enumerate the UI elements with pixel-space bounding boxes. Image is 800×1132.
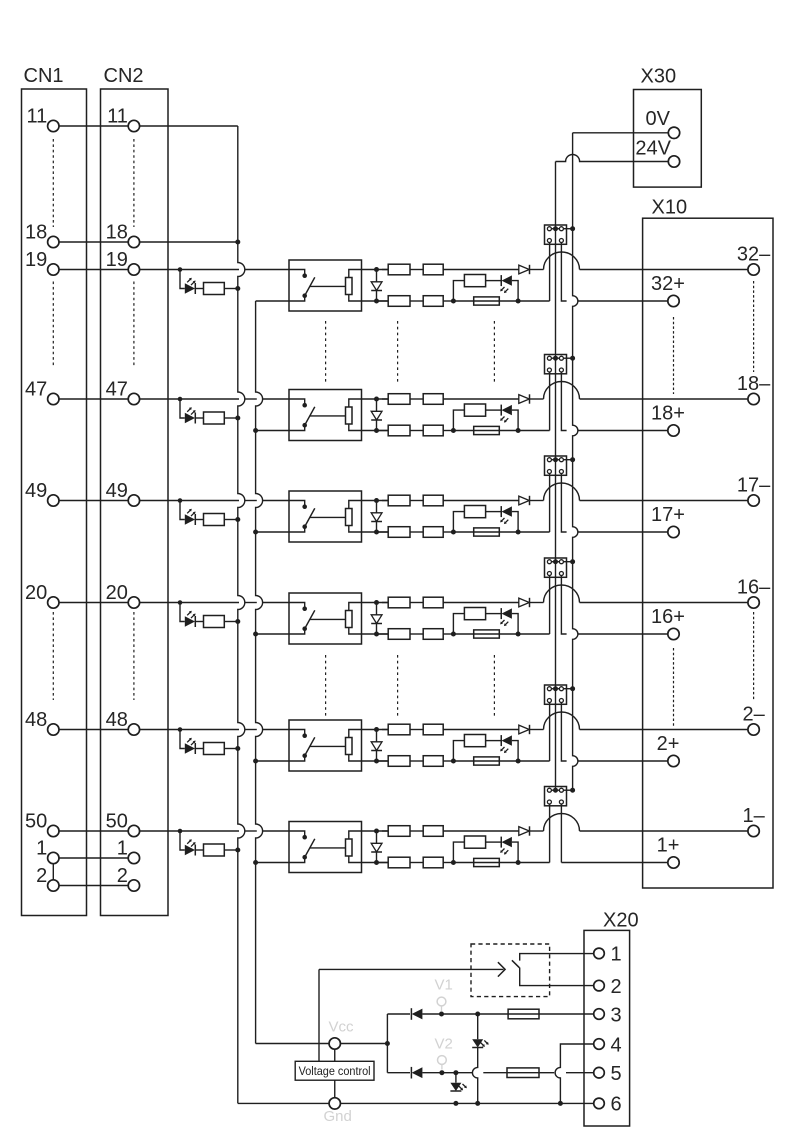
wire diode to arc ch2 bbox=[530, 398, 544, 400]
svg-text:48: 48 bbox=[106, 709, 128, 731]
relay K6 box bbox=[289, 822, 362, 873]
wire LED to junction ch4 bbox=[512, 614, 518, 634]
X10 terminal 32+ bbox=[668, 295, 679, 306]
wire to X10 18- ch2 bbox=[580, 398, 749, 400]
X10 terminal 17+ bbox=[668, 526, 679, 537]
wire hop arc over jumper wires ch2 bbox=[544, 382, 580, 400]
dashed continuation X10 32- to 18- bbox=[753, 281, 755, 372]
junction opto/bus ch5 bbox=[235, 746, 240, 751]
status LED H1 bbox=[500, 275, 502, 286]
junction LED branch right ch6 bbox=[516, 860, 521, 865]
CN2 pin 49 bbox=[128, 495, 139, 506]
junction jumper/0V-bus ch3 bbox=[570, 457, 575, 462]
jumper drop wire right ch2 bbox=[561, 372, 566, 431]
svg-text:2: 2 bbox=[611, 976, 622, 998]
wire to X10 18+ ch2 bbox=[578, 430, 668, 432]
resistor R2c bbox=[410, 398, 423, 400]
dashed continuation X10 16- to 2- bbox=[753, 612, 755, 700]
resistor R2f bbox=[464, 404, 485, 416]
dashed continuation CN1 11-18 bbox=[52, 139, 54, 227]
resistor R3b bbox=[382, 500, 388, 502]
relay K5 fixed contact top bbox=[289, 730, 305, 735]
jumper drop wire right ch6 bbox=[560, 804, 562, 863]
wire contact output to jumper ch3 bbox=[518, 531, 550, 533]
junction contact return/bus ch4 bbox=[253, 632, 258, 637]
junction diode bottom ch2 bbox=[374, 428, 379, 433]
relay contact return wire ch5 bbox=[257, 760, 289, 762]
junction LED branch left ch6 bbox=[451, 860, 456, 865]
svg-text:19: 19 bbox=[25, 249, 47, 271]
svg-text:50: 50 bbox=[25, 811, 47, 833]
wire CN1 pin 48 to CN2 pin 48 bbox=[59, 729, 129, 731]
CN2 pin 1 bbox=[128, 852, 139, 863]
wire hop arc over jumper wires ch3 bbox=[544, 483, 580, 501]
relay K3 coil bbox=[346, 509, 353, 526]
junction diode top ch1 bbox=[374, 267, 379, 272]
wire to output diode ch6 bbox=[443, 830, 519, 832]
svg-text:50: 50 bbox=[106, 811, 128, 833]
svg-text:49: 49 bbox=[25, 480, 47, 502]
jumper drop wire left ch2 bbox=[549, 372, 551, 431]
junction opto/bus ch2 bbox=[235, 416, 240, 421]
status LED H7 bbox=[472, 1039, 483, 1047]
wire resistor to LED ch5 bbox=[486, 740, 502, 742]
relay K2 actuating link bbox=[310, 415, 346, 417]
X10 terminal 2- bbox=[748, 724, 759, 735]
svg-text:18–: 18– bbox=[737, 373, 771, 395]
X30 terminal 24V bbox=[668, 156, 679, 167]
relay K2 coil bottom lead bbox=[349, 424, 388, 431]
svg-text:2: 2 bbox=[36, 865, 47, 887]
svg-text:X30: X30 bbox=[641, 66, 677, 88]
svg-text:2: 2 bbox=[117, 865, 128, 887]
CN2 pin 11 bbox=[128, 120, 139, 131]
svg-text:18: 18 bbox=[25, 222, 47, 244]
resistor R4c bbox=[410, 602, 423, 604]
control wire to voltage control bbox=[318, 969, 320, 1061]
junction jumper/0V-bus ch1 bbox=[570, 226, 575, 231]
svg-text:2–: 2– bbox=[742, 704, 765, 726]
wire opto branch ch3 bbox=[180, 501, 185, 520]
wire contact output to jumper ch1 bbox=[518, 300, 550, 302]
junction LED branch left ch4 bbox=[451, 632, 456, 637]
opto LED D3 bbox=[185, 514, 195, 524]
junction opto/bus ch1 bbox=[235, 286, 240, 291]
diode V2 wire bbox=[387, 1072, 410, 1074]
wire to X10 17- ch3 bbox=[580, 500, 749, 502]
wire resistor to logic bus ch6 bbox=[224, 849, 237, 851]
status LED branch ch4 bbox=[453, 614, 464, 634]
junction contact return/bus ch2 bbox=[253, 428, 258, 433]
relay K2 fixed contact bottom bbox=[289, 427, 305, 431]
junction opto branch ch2 bbox=[178, 397, 183, 402]
svg-text:1: 1 bbox=[36, 838, 47, 860]
wire LED to resistor ch5 bbox=[195, 748, 203, 750]
X20 pin 6 bbox=[594, 1098, 605, 1109]
wire opto branch ch5 bbox=[180, 730, 185, 749]
wire pin 48 to relay K5 bbox=[139, 729, 239, 731]
relay K1 fixed contact bottom bbox=[289, 298, 305, 302]
jumper block S1 bbox=[545, 225, 567, 244]
relay K5 fixed contact bottom bbox=[289, 758, 305, 762]
resistor R4e bbox=[410, 633, 423, 635]
resistor R4f bbox=[464, 608, 485, 620]
junction LED branch right ch2 bbox=[516, 428, 521, 433]
dashed continuation CN2 19-47 bbox=[133, 282, 135, 367]
junction pin4 / ground wire bbox=[558, 1101, 563, 1106]
relay K2 coil bbox=[346, 407, 353, 424]
CN1 pin 48 bbox=[48, 724, 59, 735]
wire CN1 pin 49 to CN2 pin 49 bbox=[59, 500, 129, 502]
relay K4 fixed contact bottom bbox=[289, 631, 305, 635]
CN2 pin 48 bbox=[128, 724, 139, 735]
jumper wire CN1 pin1-pin2 bbox=[52, 864, 54, 881]
connector X10 box bbox=[643, 218, 773, 888]
CN2 pin 18 bbox=[128, 236, 139, 247]
junction LED H7 / ground wire bbox=[475, 1101, 480, 1106]
CN1 pin 2 bbox=[48, 880, 59, 891]
svg-text:16+: 16+ bbox=[651, 606, 685, 628]
junction LED branch right ch1 bbox=[516, 299, 521, 304]
wire diode to arc ch1 bbox=[530, 269, 544, 271]
jumper drop wire right ch5 bbox=[561, 703, 566, 762]
opto LED D2 bbox=[185, 413, 195, 423]
dashed continuation CN1 19-47 bbox=[52, 282, 54, 367]
relay K5 actuating link bbox=[310, 745, 346, 747]
svg-text:1: 1 bbox=[611, 944, 622, 966]
wire to X10 2+ ch5 bbox=[578, 760, 668, 762]
ground bus wire to X20 pin 6 bbox=[238, 1102, 330, 1104]
svg-text:5: 5 bbox=[611, 1063, 622, 1085]
opto LED D1 bbox=[185, 283, 195, 293]
resistor R1e bbox=[410, 300, 423, 302]
wire to output diode ch3 bbox=[443, 500, 519, 502]
junction opto/bus ch4 bbox=[235, 619, 240, 624]
resistor R6f bbox=[464, 836, 485, 848]
wire LED to resistor ch3 bbox=[195, 519, 203, 521]
junction diode top ch5 bbox=[374, 727, 379, 732]
wire pin 20 to relay K4 bbox=[139, 602, 239, 604]
junction opto branch ch3 bbox=[178, 498, 183, 503]
wire to X10 16- ch4 bbox=[580, 602, 749, 604]
relay K5 coil bottom lead bbox=[349, 755, 388, 762]
wire diode to arc ch6 bbox=[530, 830, 544, 832]
relay K1 actuating link bbox=[310, 285, 346, 287]
CN1 pin 18 bbox=[48, 236, 59, 247]
output diode V2b bbox=[519, 395, 530, 404]
junction jumper/24V-bus ch4 bbox=[553, 559, 558, 564]
wire CN1 pin 11 to CN2 pin 11 bbox=[59, 125, 129, 127]
svg-text:32+: 32+ bbox=[651, 273, 685, 295]
jumper drop wire right ch1 bbox=[561, 243, 566, 302]
relay K1 coil top lead bbox=[349, 270, 388, 278]
relay K5 switch lever bbox=[305, 737, 315, 755]
wire hop arc over jumper wires ch4 bbox=[544, 585, 580, 603]
junction jumper/24V-bus ch1 bbox=[553, 226, 558, 231]
wire 0V to 0V-bus bbox=[573, 132, 669, 134]
resistor R2e bbox=[410, 430, 423, 432]
svg-text:20: 20 bbox=[25, 582, 47, 604]
svg-text:X10: X10 bbox=[652, 197, 688, 219]
X20 pin 1 bbox=[594, 948, 605, 959]
svg-text:17–: 17– bbox=[737, 475, 771, 497]
junction contact return/bus ch6 bbox=[253, 860, 258, 865]
resistor R4d bbox=[377, 633, 389, 635]
svg-text:CN2: CN2 bbox=[104, 65, 144, 87]
CN2 pin 50 bbox=[128, 825, 139, 836]
wire LED to resistor ch4 bbox=[195, 621, 203, 623]
junction LED branch left ch5 bbox=[451, 759, 456, 764]
svg-text:11: 11 bbox=[107, 106, 128, 128]
wire to X10 32- ch1 bbox=[580, 269, 749, 271]
wire LED to junction ch6 bbox=[512, 842, 518, 862]
junction LED branch left ch3 bbox=[451, 530, 456, 535]
relay K4 actuating link bbox=[310, 618, 346, 620]
junction opto branch ch1 bbox=[178, 267, 183, 272]
wire to X10 32+ ch1 bbox=[578, 300, 668, 302]
svg-text:24V: 24V bbox=[635, 137, 671, 159]
test switch actuation arrow bbox=[319, 968, 504, 970]
connector X20 box bbox=[584, 930, 630, 1126]
wire contact output to jumper ch2 bbox=[518, 430, 550, 432]
junction jumper/0V-bus ch6 bbox=[570, 788, 575, 793]
svg-text:48: 48 bbox=[25, 709, 47, 731]
resistor R1b bbox=[382, 269, 388, 271]
junction diode top ch2 bbox=[374, 397, 379, 402]
junction opto branch ch5 bbox=[178, 727, 183, 732]
wire contact output to jumper ch6 bbox=[518, 862, 550, 864]
fuse F1 bbox=[453, 300, 473, 302]
junction opto branch ch6 bbox=[178, 829, 183, 834]
X10 terminal 32- bbox=[748, 264, 759, 275]
status LED branch ch2 bbox=[453, 410, 464, 430]
wire LED to junction ch2 bbox=[512, 410, 518, 430]
voltage control box bbox=[295, 1061, 374, 1080]
dashed continuation marks channels 1-2 bbox=[325, 321, 327, 382]
wire CN1 pin 1 to CN2 pin 1 bbox=[59, 857, 129, 859]
wire CN1 pin 47 to CN2 pin 47 bbox=[59, 398, 129, 400]
wire Vcc to diode branch bbox=[340, 1043, 386, 1045]
relay K5 box bbox=[289, 720, 362, 771]
resistor R5c bbox=[410, 729, 423, 731]
junction diode bottom ch3 bbox=[374, 530, 379, 535]
jumper drop wire left ch1 bbox=[549, 243, 551, 302]
svg-text:1: 1 bbox=[117, 838, 128, 860]
junction jumper/24V-bus ch2 bbox=[553, 356, 558, 361]
diode V2 bbox=[410, 1067, 412, 1079]
relay K1 coil bbox=[346, 278, 353, 295]
wire LED to resistor ch2 bbox=[195, 417, 203, 419]
wire LED to resistor ch1 bbox=[195, 288, 203, 290]
X20 pin 3 bbox=[594, 1009, 605, 1020]
output diode V5b bbox=[519, 725, 530, 734]
wire opto branch ch2 bbox=[180, 399, 185, 418]
status LED H3 bbox=[500, 506, 502, 517]
wire fuse2 to X20 pin 5 with hop gap bbox=[483, 1072, 507, 1074]
opto LED D6 bbox=[185, 845, 195, 855]
jumper drop wire right ch4 bbox=[561, 576, 566, 635]
wire to X10 2- ch5 bbox=[580, 729, 749, 731]
jumper block S3 bbox=[545, 456, 567, 475]
X10 terminal 17- bbox=[748, 495, 759, 506]
jumper drop wire right ch3 bbox=[561, 474, 566, 533]
jumper block S2 bbox=[545, 355, 567, 374]
svg-text:1+: 1+ bbox=[657, 835, 680, 857]
output diode V6b bbox=[519, 827, 530, 836]
CN2 pin 47 bbox=[128, 393, 139, 404]
relay K3 actuating link bbox=[310, 516, 346, 518]
junction Vcc branch bbox=[385, 1041, 390, 1046]
relay contact return wire ch2 bbox=[257, 430, 289, 432]
junction contact return/bus ch5 bbox=[253, 759, 258, 764]
svg-text:Gnd: Gnd bbox=[324, 1108, 352, 1125]
svg-text:47: 47 bbox=[106, 379, 128, 401]
wire to output diode ch1 bbox=[443, 269, 519, 271]
fuse F6 bbox=[453, 862, 473, 864]
relay K3 switch lever bbox=[305, 508, 315, 526]
resistor R3c bbox=[410, 500, 423, 502]
resistor R6a bbox=[204, 844, 225, 856]
wire resistor to logic bus ch4 bbox=[224, 621, 237, 623]
junction jumper/0V-bus ch5 bbox=[570, 686, 575, 691]
dashed continuation CN2 11-18 bbox=[133, 139, 135, 227]
wire resistor to LED ch4 bbox=[486, 613, 502, 615]
junction LED branch right ch4 bbox=[516, 632, 521, 637]
junction opto/bus ch6 bbox=[235, 848, 240, 853]
relay K2 coil top lead bbox=[349, 399, 388, 407]
svg-text:2+: 2+ bbox=[657, 733, 680, 755]
wire LED to junction ch5 bbox=[512, 741, 518, 761]
resistor R5f bbox=[464, 735, 485, 747]
relay K2 box bbox=[289, 390, 362, 441]
X10 terminal 1- bbox=[748, 825, 759, 836]
junction opto/bus ch3 bbox=[235, 517, 240, 522]
wire box to Gnd bbox=[334, 1080, 336, 1098]
test switch contact bbox=[520, 954, 594, 961]
X10 terminal 18+ bbox=[668, 425, 679, 436]
wire resistor to LED ch1 bbox=[486, 280, 502, 282]
node Vcc bbox=[329, 1038, 340, 1049]
wire opto branch ch1 bbox=[180, 270, 185, 289]
svg-text:1–: 1– bbox=[742, 805, 765, 827]
X10 terminal 16+ bbox=[668, 628, 679, 639]
svg-text:X20: X20 bbox=[603, 910, 639, 932]
junction diode bottom ch4 bbox=[374, 632, 379, 637]
wire resistor to logic bus ch1 bbox=[224, 288, 237, 290]
relay K4 coil bottom lead bbox=[349, 628, 388, 635]
fuse F5 bbox=[453, 760, 473, 762]
svg-text:3: 3 bbox=[611, 1004, 622, 1026]
wire resistor to logic bus ch3 bbox=[224, 519, 237, 521]
junction LED2 branch bbox=[453, 1070, 458, 1075]
wire LED to junction ch1 bbox=[512, 281, 518, 301]
relay K6 fixed contact top bbox=[289, 831, 305, 836]
resistor R5d bbox=[377, 760, 389, 762]
resistor R5b bbox=[382, 729, 388, 731]
junction LED branch right ch3 bbox=[516, 530, 521, 535]
relay K5 coil bbox=[346, 738, 353, 755]
relay K4 box bbox=[289, 593, 362, 644]
CN1 pin 50 bbox=[48, 825, 59, 836]
status LED H8 bbox=[450, 1083, 461, 1091]
svg-text:18: 18 bbox=[106, 222, 128, 244]
dashed continuation X10 16+ to 2+ bbox=[673, 648, 675, 726]
test switch dashed box bbox=[471, 944, 550, 997]
junction LED branch left ch2 bbox=[451, 428, 456, 433]
opto LED D4 bbox=[185, 616, 195, 626]
wire Vcc to box bbox=[334, 1049, 336, 1061]
relay K5 coil top lead bbox=[349, 730, 388, 738]
jumper block S4 bbox=[545, 558, 567, 577]
X20 pin 2 bbox=[594, 980, 605, 991]
svg-text:6: 6 bbox=[611, 1094, 622, 1116]
wire LED to junction ch3 bbox=[512, 512, 518, 532]
wire fuse to X20 pin 3 bbox=[539, 1013, 594, 1015]
status LED H5 bbox=[500, 735, 502, 746]
CN2 pin 2 bbox=[128, 880, 139, 891]
relay K4 coil top lead bbox=[349, 603, 388, 611]
wire contact output to jumper ch4 bbox=[518, 633, 550, 635]
freewheel diode V3a bbox=[376, 501, 378, 513]
wire to X10 1+ ch6 bbox=[561, 862, 668, 864]
wire pin 47 to relay K2 bbox=[139, 398, 239, 400]
wire resistor to logic bus ch2 bbox=[224, 417, 237, 419]
jumper drop wire left ch5 bbox=[549, 703, 551, 762]
junction contact return/bus ch3 bbox=[253, 530, 258, 535]
resistor R3e bbox=[410, 531, 423, 533]
relay K6 actuating link bbox=[310, 847, 346, 849]
wire pin 18 to logic-common bus bbox=[139, 241, 236, 243]
resistor R6d bbox=[377, 862, 389, 864]
junction LED1 branch bbox=[475, 1012, 480, 1017]
wire hop arc over jumper wires ch6 bbox=[544, 814, 580, 832]
wire opto branch ch4 bbox=[180, 603, 185, 622]
relay K6 switch lever bbox=[305, 839, 315, 857]
relay K1 fixed contact top bbox=[289, 270, 305, 275]
wire to output diode ch5 bbox=[443, 729, 519, 731]
relay K2 fixed contact top bbox=[289, 399, 305, 404]
svg-text:18+: 18+ bbox=[651, 403, 685, 425]
X10 terminal 2+ bbox=[668, 755, 679, 766]
freewheel diode V6a bbox=[376, 831, 378, 843]
status LED H7 branch bbox=[477, 1014, 479, 1039]
connector X30 box bbox=[634, 90, 702, 188]
CN1 pin 47 bbox=[48, 393, 59, 404]
diode V1 wire bbox=[387, 1013, 410, 1015]
dashed continuation CN1 20-48 bbox=[52, 612, 54, 700]
status LED H4 bbox=[500, 608, 502, 619]
relay K6 coil bottom lead bbox=[349, 856, 388, 863]
status LED branch ch1 bbox=[453, 281, 464, 301]
wire CN1 pin 2 to CN2 pin 2 bbox=[59, 885, 129, 887]
svg-text:19: 19 bbox=[106, 249, 128, 271]
junction LED H8 / ground wire bbox=[453, 1101, 458, 1106]
svg-text:V2: V2 bbox=[435, 1036, 453, 1053]
relay contact return wire ch3 bbox=[257, 531, 289, 533]
junction jumper/0V-bus ch4 bbox=[570, 559, 575, 564]
X30 terminal 0V bbox=[668, 127, 679, 138]
junction jumper/24V-bus ch6 bbox=[553, 788, 558, 793]
wire resistor to LED ch6 bbox=[486, 841, 502, 843]
wire LED to resistor ch6 bbox=[195, 849, 203, 851]
wire CN1 pin 19 to CN2 pin 19 bbox=[59, 269, 129, 271]
dashed continuation CN2 20-48 bbox=[133, 612, 135, 700]
wire resistor to LED ch2 bbox=[486, 409, 502, 411]
junction V1 bbox=[439, 1012, 444, 1017]
X20 pin 4 bbox=[594, 1039, 605, 1050]
svg-text:11: 11 bbox=[27, 106, 48, 128]
diode branch vertical bbox=[386, 1014, 388, 1073]
